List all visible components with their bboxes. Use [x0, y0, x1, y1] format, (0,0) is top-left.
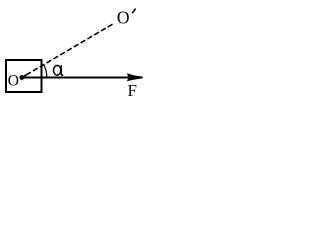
svg-text:O: O	[117, 7, 130, 27]
angle arc	[43, 64, 47, 78]
label alpha	[54, 65, 64, 75]
svg-text:F: F	[128, 81, 137, 100]
dashed line O to O'	[31, 23, 115, 72]
block (box)	[6, 60, 42, 92]
solid start of dashed line	[22, 72, 31, 77]
arrowhead	[127, 73, 143, 81]
label O prime: prime tick	[132, 9, 135, 14]
point dot at O	[19, 75, 24, 80]
svg-text:O: O	[8, 73, 19, 90]
force arrow line F	[22, 77, 138, 79]
